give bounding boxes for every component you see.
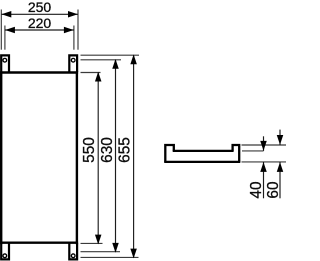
dimension line 655 <box>133 55 135 257</box>
extension line top 630 <box>81 59 122 61</box>
dimension line 60 upper tail <box>279 130 281 145</box>
extension line top 550 <box>81 72 101 74</box>
rail left end with lip <box>165 145 174 162</box>
top-left hole <box>3 58 7 62</box>
arrowhead 220 left <box>5 27 15 34</box>
bottom-left hole <box>3 254 7 258</box>
svg-text:655: 655 <box>116 137 133 163</box>
mounting frame outline (front view) <box>0 71 78 244</box>
arrowhead 550 top <box>95 72 102 82</box>
dimension line 40 lower tail <box>263 162 265 198</box>
dimension line 40 upper tail <box>263 136 265 151</box>
arrowhead 630 top <box>112 59 119 69</box>
arrowhead 630 bottom <box>112 243 119 253</box>
svg-text:630: 630 <box>99 137 116 163</box>
frame bottom edge <box>0 241 78 243</box>
arrowhead 655 top <box>130 54 137 64</box>
arrowhead 220 right <box>64 27 74 34</box>
arrowhead 40 up <box>260 162 267 172</box>
arrowhead 250 right <box>68 11 78 17</box>
svg-text:60: 60 <box>265 181 282 198</box>
extension line rail bottom shared <box>242 161 287 163</box>
top-left mounting tab <box>1 55 9 72</box>
top-right mounting tab <box>69 55 77 72</box>
dimension line 220 <box>5 29 74 31</box>
extension line 250 right <box>77 10 79 50</box>
arrowhead 60 down <box>277 135 284 145</box>
dimension line 250 <box>1 13 78 15</box>
extension line rail top (40) <box>242 150 264 152</box>
extension line 250 left <box>0 10 2 50</box>
svg-text:220: 220 <box>28 15 52 31</box>
arrowhead 655 bottom <box>130 249 137 259</box>
frame left edge <box>0 71 2 244</box>
rail bottom <box>164 161 240 163</box>
bottom-left mounting tab <box>1 243 9 259</box>
bottom-right mounting tab <box>69 243 77 259</box>
top-right hole <box>71 58 75 62</box>
frame top edge <box>0 71 78 73</box>
bottom-right hole <box>71 254 75 258</box>
arrowhead 40 down <box>260 141 267 151</box>
extension line bottom 655 <box>81 256 139 258</box>
dimension line 630 <box>115 60 117 252</box>
svg-text:250: 250 <box>28 0 52 15</box>
arrowhead 250 left <box>2 11 12 17</box>
svg-text:550: 550 <box>81 137 98 163</box>
frame right edge <box>76 71 78 244</box>
arrowhead 550 bottom <box>95 235 102 245</box>
rail profile (side view) <box>164 145 240 162</box>
svg-text:40: 40 <box>248 181 265 198</box>
rail top <box>173 150 234 152</box>
extension line 220 right <box>73 26 75 50</box>
extension line top 655 <box>81 54 140 56</box>
rail right end with lip <box>233 145 240 162</box>
extension line 220 left <box>4 26 6 50</box>
dimension line 550 <box>97 73 99 244</box>
extension line lip top (60) <box>242 144 287 146</box>
extension line bottom 630 <box>81 251 121 253</box>
extension line bottom 550 <box>81 242 103 244</box>
dimension line 60 lower tail <box>279 162 281 198</box>
arrowhead 60 up <box>277 162 284 172</box>
